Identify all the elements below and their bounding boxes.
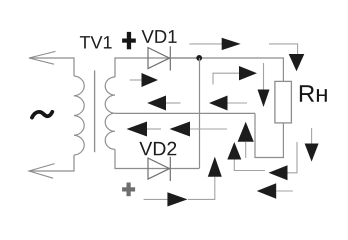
diode VD2 [148, 157, 170, 181]
plus sign (gray, bottom) [122, 183, 135, 197]
resistor Rn [275, 81, 292, 123]
transformer TV1 secondary winding [105, 77, 115, 149]
wire: secondary top lead to VD1 [115, 58, 200, 77]
flow arrow up (left of center-tap drop) [238, 122, 254, 158]
flow arrow down (right of resistor) [305, 128, 319, 162]
label Rn load resistor [300, 85, 327, 102]
flow arrow down (top right corner) [269, 44, 304, 71]
wire: primary top lead [29, 58, 74, 76]
AC tilde symbol [32, 112, 52, 118]
label VD1 [142, 30, 177, 43]
flow arrow right (bent, right of riser) [213, 66, 257, 85]
label VD2 [139, 142, 176, 156]
diode VD1 [148, 46, 170, 70]
transformer TV1 primary winding [74, 76, 84, 155]
flow arrow up (bottom, bent tail) [188, 157, 222, 200]
flow arrow right (inside loop, upper) [130, 73, 158, 87]
wire: secondary bottom lead to VD2 [115, 149, 200, 168]
open arrow on primary bottom lead [29, 164, 55, 179]
flow arrow left (row 3, right) [170, 122, 228, 137]
wire: secondary center tap [115, 112, 255, 114]
node: junction dot [196, 55, 202, 61]
wire: primary bottom lead [29, 155, 74, 171]
transformer core [94, 70, 96, 152]
flow arrow left (bent, below resistor) [269, 142, 298, 180]
wire: VD1 cathode to junction and right to resistor top [170, 58, 283, 81]
flow arrow left (row 3, left) [127, 122, 162, 137]
label TV1 [80, 36, 112, 48]
flow arrow right (bottom center) [144, 192, 188, 206]
flow arrow left (bottom right) [257, 183, 293, 198]
flow arrow up (lower left of center-tap drop) [227, 142, 265, 171]
open arrow on primary top lead [29, 51, 56, 64]
flow arrow left (row 2, right) [209, 96, 247, 111]
plus sign (black, top) [122, 32, 136, 49]
wire: center tap drop and resistor bottom return [255, 113, 283, 157]
flow arrow left (row 2, left) [147, 96, 180, 111]
wire: vertical riser from junction down to VD2 row [199, 58, 201, 168]
flow arrow down (left of resistor) [258, 63, 270, 107]
flow arrow right (top, over VD1 output) [190, 38, 241, 50]
